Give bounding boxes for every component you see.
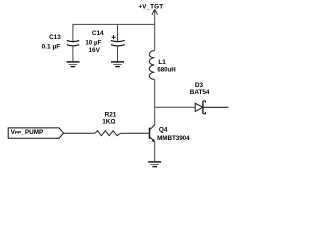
ground C14 [111,62,124,67]
resistor R21 [95,111,121,135]
wire emitter to ground [154,142,156,162]
capacitor C14 [85,30,124,54]
svg-text:VPP_PUMP: VPP_PUMP [11,129,44,136]
wire power vertical to inductor [154,10,156,50]
wire inductor to junction [154,79,156,107]
transistor Q4 [150,125,191,142]
wire flag to resistor [64,132,96,134]
svg-text:10 µF: 10 µF [85,39,101,46]
wire C14 bottom lead [117,45,119,61]
inductor L1 [149,51,175,80]
svg-text:16V: 16V [89,47,101,54]
svg-text:680uH: 680uH [157,67,175,74]
svg-text:R21: R21 [105,111,117,118]
wire diode anode [155,106,196,108]
svg-text:C14: C14 [92,30,104,37]
svg-text:Q4: Q4 [159,127,168,134]
wire diode cathode [203,106,228,108]
svg-text:1KΩ: 1KΩ [102,119,115,126]
svg-text:+V_TGT: +V_TGT [138,4,163,11]
node collector junction [154,107,156,125]
wire C14 top lead [117,24,119,41]
capacitor C13 [41,34,79,50]
net flag Vpp_PUMP [8,128,63,138]
diode D3 [190,82,210,114]
wire resistor to base [121,132,149,134]
wire C13 bottom lead [72,45,74,61]
power +V_TGT [138,4,163,15]
ground C13 [66,62,79,67]
wire top rail [73,23,155,25]
ground Q4 [148,162,161,167]
wire C13 top lead [72,24,74,41]
svg-text:C13: C13 [49,34,61,41]
svg-text:L1: L1 [158,59,166,66]
svg-text:MMBT3904: MMBT3904 [157,135,190,142]
svg-text:0.1 µF: 0.1 µF [41,44,60,51]
svg-text:BAT54: BAT54 [190,89,210,96]
